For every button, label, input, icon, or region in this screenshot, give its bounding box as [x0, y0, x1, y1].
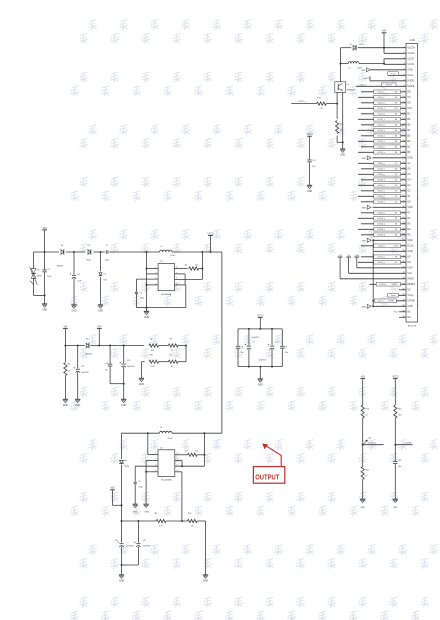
svg-text:Vcom: Vcom [390, 74, 395, 76]
wire U1 left rail [146, 252, 159, 311]
node +5V power flag A [63, 327, 68, 346]
op-amp U2 MC34063A box [158, 447, 175, 481]
svg-text:GND: GND [119, 581, 124, 583]
node +5V bottom power flag [110, 488, 123, 507]
wire output row [121, 505, 206, 522]
svg-text:B1: B1 [395, 147, 397, 149]
connector pin 19 B1 [361, 145, 411, 149]
ground GND C15 [121, 399, 127, 407]
transistor Q1 NPN9013 [335, 48, 355, 93]
op-amp U1 MC34063A box [158, 261, 174, 296]
svg-text:G3: G3 [395, 185, 397, 187]
junction input node [44, 251, 46, 253]
node VCC3 pin7 power flag [364, 76, 406, 81]
svg-text:LCD07_s: LCD07_s [377, 191, 385, 193]
svg-text:MODE: MODE [386, 85, 393, 87]
svg-text:1K Vcom: 1K Vcom [368, 443, 376, 445]
svg-text:LCD07_p: LCD07_p [377, 185, 385, 187]
svg-text:NC: NC [407, 290, 411, 292]
node VCC3 divider power flag [392, 377, 399, 406]
svg-text:LCD05_s: LCD05_s [377, 169, 385, 171]
svg-text:10uF25V: 10uF25V [143, 545, 151, 547]
svg-text:GND: GND [407, 306, 412, 308]
svg-text:D1: D1 [103, 274, 105, 276]
ground GND divider [139, 378, 145, 386]
svg-text:R14: R14 [365, 408, 368, 410]
wire cap bank top [238, 328, 282, 330]
connector pin 15 B5 [361, 123, 411, 127]
svg-text:B5: B5 [395, 125, 397, 127]
svg-text:GND: GND [133, 511, 138, 513]
resistor R11 [317, 98, 327, 110]
capacitor C7 polarized [259, 329, 278, 367]
diode D8 [119, 433, 129, 505]
svg-text:GND: GND [71, 311, 76, 313]
svg-text:C10: C10 [114, 540, 117, 542]
svg-text:Q1: Q1 [346, 84, 349, 86]
svg-text:LCD0A_s: LCD0A_s [377, 228, 385, 231]
connector pin 17 B3 [361, 134, 411, 138]
connector pin 29 G0 [361, 200, 411, 204]
capacitor C4 timing [135, 279, 158, 308]
diode D2 [86, 245, 91, 261]
node +5V divider power flag [360, 377, 365, 401]
wire feedback vertical [204, 252, 222, 433]
svg-text:DCLK: DCLK [407, 246, 414, 248]
svg-text:C9: C9 [138, 481, 140, 483]
svg-text:LCD07_s: LCD07_s [298, 101, 306, 103]
connector pin 21 GND [362, 156, 413, 160]
svg-text:R13: R13 [398, 408, 401, 410]
wire U2 pin5 down [175, 472, 182, 521]
svg-text:UD: UD [407, 262, 411, 264]
svg-text:OUTPUT: OUTPUT [255, 474, 279, 482]
svg-text:LCD01_s: LCD01_s [377, 119, 385, 121]
connector pin 26 G3 [358, 183, 411, 187]
svg-text:G2: G2 [395, 191, 397, 193]
connector pin 6 Vcom [403, 74, 413, 77]
resistor R5 [149, 355, 159, 369]
svg-text:GND: GND [393, 507, 398, 509]
resistor R4 [168, 338, 178, 352]
svg-text:R11: R11 [318, 98, 321, 100]
svg-text:GND: GND [362, 306, 367, 308]
svg-text:181p: 181p [140, 298, 144, 300]
svg-text:G5: G5 [395, 174, 397, 176]
svg-text:GND: GND [340, 155, 345, 157]
wire main input rail [34, 251, 222, 253]
connector pin 50 NC [399, 316, 411, 319]
connector pin 7 DVDD [403, 79, 414, 82]
svg-text:GND: GND [362, 158, 367, 160]
diode D4 [57, 245, 65, 267]
svg-text:GND: GND [258, 385, 263, 387]
svg-text:R6: R6 [395, 218, 397, 220]
connector pin 41 VGH [357, 257, 413, 270]
svg-text:C7: C7 [275, 341, 277, 343]
connector pin 30 GND [362, 205, 413, 209]
node +5V top power flag [382, 31, 387, 48]
svg-text:LCD04_s: LCD04_s [377, 152, 385, 154]
connector pin 40 UD [358, 260, 411, 264]
capacitor C1 series [105, 245, 109, 261]
connector pin 23 G6 [361, 167, 411, 171]
svg-text:22uH: 22uH [168, 438, 173, 440]
wire U2 pins 2-4 loop [145, 460, 158, 504]
ground GND cap bank [258, 367, 264, 387]
resistor R12 [336, 121, 344, 134]
svg-text:R3: R3 [185, 265, 187, 267]
svg-text:GND: GND [361, 70, 366, 72]
connector pin 10 VS [358, 95, 411, 99]
svg-text:LCD08_s: LCD08_s [377, 202, 385, 204]
svg-text:R9: R9 [155, 513, 157, 515]
svg-text:C15: C15 [127, 360, 130, 362]
svg-text:VLCD-: VLCD- [407, 64, 414, 66]
connector pin 49 NC [393, 310, 411, 313]
connector pin 25 G4 [361, 178, 411, 182]
svg-text:NPN9013: NPN9013 [347, 89, 355, 91]
resistor R2 [149, 338, 159, 352]
resistor R8 [64, 346, 71, 400]
TVS D6 [30, 252, 45, 295]
wire Q1 base row [291, 101, 338, 105]
svg-text:B7: B7 [395, 114, 397, 116]
svg-text:100n: 100n [105, 260, 109, 262]
node 12V input power flag [42, 227, 47, 252]
ground GND C13 [75, 399, 81, 407]
connector part number AT050TN [408, 325, 417, 328]
wire C10 C11 bottom [121, 564, 139, 575]
wire U1 right to rail [174, 251, 203, 279]
svg-text:LCD0B_p: LCD0B_p [377, 235, 385, 237]
svg-text:10uF25V: 10uF25V [251, 337, 259, 339]
svg-text:LCD0A_p: LCD0A_p [377, 223, 385, 226]
svg-text:LCD05_p: LCD05_p [377, 163, 385, 165]
ground GND R10 [203, 575, 209, 583]
svg-text:12V: 12V [42, 227, 47, 230]
svg-text:C16: C16 [398, 460, 401, 462]
capacitor C8 [236, 329, 244, 367]
connector pin 33 R5 [361, 222, 411, 226]
svg-text:LCD06_p: LCD06_p [379, 284, 387, 286]
capacitor C2 [42, 252, 51, 295]
svg-text:Vcom: Vcom [407, 75, 413, 77]
svg-text:VS: VS [407, 97, 411, 99]
node VCC3 decoupling power flag [306, 134, 313, 159]
svg-text:Rp: Rp [369, 437, 371, 439]
svg-text:L3: L3 [349, 67, 351, 69]
svg-text:B0: B0 [395, 152, 397, 154]
ground GND C10 [119, 575, 125, 583]
capacitor C5 polarized [245, 329, 260, 367]
svg-text:10uF25V: 10uF25V [127, 366, 135, 368]
svg-text:VLCD-: VLCD- [407, 59, 414, 61]
resistor R15 [361, 445, 369, 500]
connector pin 39 LR [361, 255, 411, 259]
svg-text:10n: 10n [312, 166, 315, 168]
svg-text:C3: C3 [77, 274, 79, 276]
svg-text:GND: GND [362, 207, 367, 209]
diode D5 [85, 339, 92, 356]
svg-text:LCD01_p: LCD01_p [377, 114, 385, 116]
wire divider lower left [141, 362, 144, 379]
junction C2 bottom [44, 294, 46, 296]
svg-text:GND: GND [63, 405, 68, 407]
svg-text:10uF25V: 10uF25V [81, 372, 89, 374]
svg-text:SS14: SS14 [359, 44, 364, 46]
svg-text:G7: G7 [395, 163, 397, 165]
svg-text:B2: B2 [395, 141, 397, 143]
svg-text:VCC3: VCC3 [364, 78, 370, 80]
svg-text:D8: D8 [124, 460, 126, 462]
ground GND U2 pin4 [143, 504, 149, 513]
svg-text:22uH: 22uH [170, 255, 175, 257]
svg-text:GND: GND [407, 158, 412, 160]
svg-text:B4: B4 [395, 130, 397, 132]
svg-text:R8: R8 [68, 363, 70, 365]
svg-text:LCD00_p: LCD00_p [377, 103, 385, 105]
resistor R13 [394, 405, 402, 445]
junction node after D4 [73, 251, 75, 253]
svg-text:LCD07_s: LCD07_s [377, 301, 385, 303]
svg-text:G4: G4 [395, 180, 397, 182]
svg-text:LCD0B7: LCD0B7 [404, 442, 411, 444]
svg-text:R12: R12 [340, 123, 343, 125]
connector pin 11 HS [361, 101, 411, 105]
capacitor C14 [105, 346, 113, 384]
svg-text:R4: R4 [395, 229, 397, 231]
connector pin 13 B7 [361, 112, 411, 116]
capacitor C15 polarized [120, 346, 136, 384]
svg-text:CLK: CLK [407, 108, 412, 110]
capacitor C16 [393, 445, 401, 500]
resistor R7 [175, 450, 205, 456]
svg-text:DITHB: DITHB [407, 301, 414, 303]
resistor R9 [155, 513, 166, 527]
connector pin 42 VGL [349, 257, 413, 275]
svg-text:LR: LR [407, 257, 410, 259]
capacitor C13 polarized [74, 346, 90, 400]
svg-text:PCLK_s: PCLK_s [378, 97, 385, 99]
wire U2 pin1 left [148, 453, 158, 455]
connector pin 32 R6 [358, 216, 411, 220]
svg-text:LCD04_p: LCD04_p [377, 246, 385, 248]
junction U1 left rail tap [146, 251, 148, 253]
svg-text:10n: 10n [241, 352, 244, 354]
wire divider right [178, 345, 187, 362]
wire R6 right [178, 361, 186, 363]
wire U1 pins 7-5 loop [147, 274, 186, 308]
connector pin 16 B4 [358, 128, 411, 132]
capacitor C10 polarized [114, 521, 134, 565]
svg-text:GND: GND [145, 511, 150, 513]
capacitor C6 [280, 329, 288, 367]
connector pin 46 Vcom [388, 293, 414, 297]
capacitor C3 polarized [70, 252, 83, 305]
svg-text:LCD07_p: LCD07_p [358, 85, 366, 87]
resistor R6 [168, 355, 178, 369]
power flag +5V AVDD [338, 255, 343, 257]
svg-text:100K: 100K [150, 366, 155, 368]
wire U2 right rail [175, 433, 206, 466]
connector pin 4 VLCD- [403, 63, 414, 66]
svg-text:100n: 100n [47, 276, 51, 278]
ground GND C3 [71, 305, 77, 313]
svg-text:AT050TN: AT050TN [408, 325, 417, 328]
svg-text:LCD09_p: LCD09_p [377, 213, 385, 215]
svg-text:VGH: VGH [407, 268, 412, 270]
svg-text:LCD04_p: LCD04_p [377, 147, 385, 149]
ground GND D1 [98, 305, 104, 313]
svg-text:R0: R0 [395, 235, 397, 237]
ground GND C9 [133, 504, 138, 513]
connector LCD body [406, 43, 418, 322]
ground GND R15 [360, 499, 365, 509]
svg-text:SS14: SS14 [86, 260, 91, 262]
wire GND bus pins 36-48 [372, 240, 374, 306]
svg-text:GND: GND [144, 317, 149, 319]
power flag +16V VGH [354, 255, 359, 257]
resistor R10 [187, 513, 197, 527]
wire R10 to ground [205, 521, 207, 575]
svg-text:PCLK_p: PCLK_p [378, 92, 385, 94]
ground GND U1 [144, 311, 150, 319]
inductor L1 [160, 246, 176, 257]
connector pin 48 GND [362, 304, 413, 308]
svg-text:VGL: VGL [407, 273, 412, 275]
svg-text:LCD09_s: LCD09_s [377, 218, 385, 220]
svg-text:10uF25V: 10uF25V [259, 359, 267, 361]
svg-text:AVDD: AVDD [407, 278, 414, 281]
svg-text:LCD: LCD [410, 38, 415, 42]
svg-text:GND: GND [360, 507, 365, 509]
wire R2 R4 [159, 345, 169, 347]
svg-text:DVDD: DVDD [407, 81, 414, 83]
diode D7 [349, 44, 364, 51]
svg-text:D7: D7 [349, 44, 351, 46]
connector pin 1 VLCD+ [403, 46, 415, 49]
svg-text:10n: 10n [285, 352, 288, 354]
svg-text:10uF25V: 10uF25V [126, 545, 134, 547]
svg-text:RESET: RESET [407, 284, 415, 286]
svg-text:R10: R10 [188, 513, 191, 515]
svg-text:B6: B6 [395, 119, 397, 121]
svg-text:C6: C6 [285, 346, 287, 348]
node VCC3 output power flag [207, 233, 214, 253]
svg-text:Vcom: Vcom [391, 295, 396, 297]
svg-text:G0: G0 [395, 202, 397, 204]
connector pin 24 G5 [358, 172, 411, 176]
capacitor C12 decoupling [307, 160, 315, 186]
svg-text:DCLK: DCLK [394, 246, 400, 248]
svg-text:GND: GND [407, 240, 412, 242]
wire pin2 jog [384, 48, 406, 54]
node +5V power flag B [97, 327, 102, 346]
wire U2 pins 7-6 loop [175, 460, 183, 467]
svg-text:10n: 10n [105, 369, 108, 371]
svg-text:ZM4651: ZM4651 [57, 265, 64, 267]
svg-text:GND: GND [407, 207, 412, 209]
svg-text:VLCD+: VLCD+ [407, 53, 415, 55]
svg-text:GND: GND [203, 581, 208, 583]
wire cap bank bottom [238, 366, 282, 368]
svg-text:GND: GND [98, 311, 103, 313]
inductor L3 [348, 62, 362, 70]
ground GND input [42, 295, 48, 311]
node Vcom wiper [362, 437, 384, 445]
svg-text:HS: HS [407, 103, 411, 105]
U1 pin numbers [155, 267, 177, 285]
wire pins 3-4 jog [384, 59, 406, 65]
svg-text:R5: R5 [150, 355, 152, 357]
capacitor C9 timing [134, 466, 158, 504]
connector pin 47 DITHB [372, 299, 415, 303]
svg-text:R4: R4 [169, 338, 171, 340]
svg-text:C13: C13 [81, 366, 84, 368]
svg-text:C11: C11 [143, 540, 146, 542]
node VCC3 cap bank power flag [257, 316, 264, 329]
svg-text:GND: GND [307, 191, 312, 193]
net label Vcom pin6 [388, 72, 406, 76]
svg-text:Vcom: Vcom [407, 295, 413, 297]
svg-text:R2: R2 [150, 338, 152, 340]
connector pin 20 B0 [358, 150, 411, 154]
connector pin 27 G2 [361, 189, 411, 193]
wire R5 R6 [159, 361, 169, 363]
wire D7 rail [341, 47, 407, 49]
connector pin 22 G7 [358, 161, 411, 165]
svg-text:R7: R7 [186, 450, 188, 452]
svg-text:SS14: SS14 [124, 466, 129, 468]
inductor L2 [159, 427, 172, 440]
svg-text:LCD06_s: LCD06_s [377, 180, 385, 182]
connector pin 45 NC [399, 288, 411, 291]
svg-text:LCD08_p: LCD08_p [377, 196, 385, 198]
connector pin 37 DCLK [361, 244, 414, 248]
svg-text:MC34063A: MC34063A [161, 478, 172, 481]
svg-text:LCD06_p: LCD06_p [377, 174, 385, 176]
svg-text:GND: GND [121, 405, 126, 407]
svg-text:10n: 10n [398, 466, 401, 468]
svg-text:R7: R7 [395, 213, 397, 215]
connector pin 38 GND [374, 250, 413, 253]
connector pin 14 B6 [358, 117, 411, 121]
svg-text:LCD05_p: LCD05_p [377, 257, 385, 259]
connector pin 18 B2 [358, 139, 411, 143]
connector pin 5 GND [403, 68, 412, 71]
connector pin 44 RESET [370, 282, 416, 286]
svg-text:LCD00_s: LCD00_s [377, 108, 385, 110]
svg-text:MODE: MODE [407, 86, 414, 88]
svg-text:RESET: RESET [392, 284, 399, 286]
ground GND pin5 sideways [361, 68, 406, 72]
svg-text:181p: 181p [138, 487, 142, 489]
svg-text:C5: C5 [252, 341, 254, 343]
svg-text:C8: C8 [241, 346, 243, 348]
power flag -7V VGL [346, 255, 351, 257]
wire L3 rail [340, 63, 386, 65]
svg-text:GND: GND [407, 70, 412, 72]
svg-text:GND: GND [407, 251, 412, 253]
ground GND C16 [393, 499, 398, 509]
capacitor C11 polarized [134, 521, 151, 565]
connector pin 31 R7 [361, 211, 411, 215]
connector pin 3 VLCD- [403, 57, 414, 60]
svg-text:GND: GND [42, 310, 47, 312]
ground GND Q1 [340, 142, 346, 156]
svg-text:G1: G1 [395, 196, 397, 198]
